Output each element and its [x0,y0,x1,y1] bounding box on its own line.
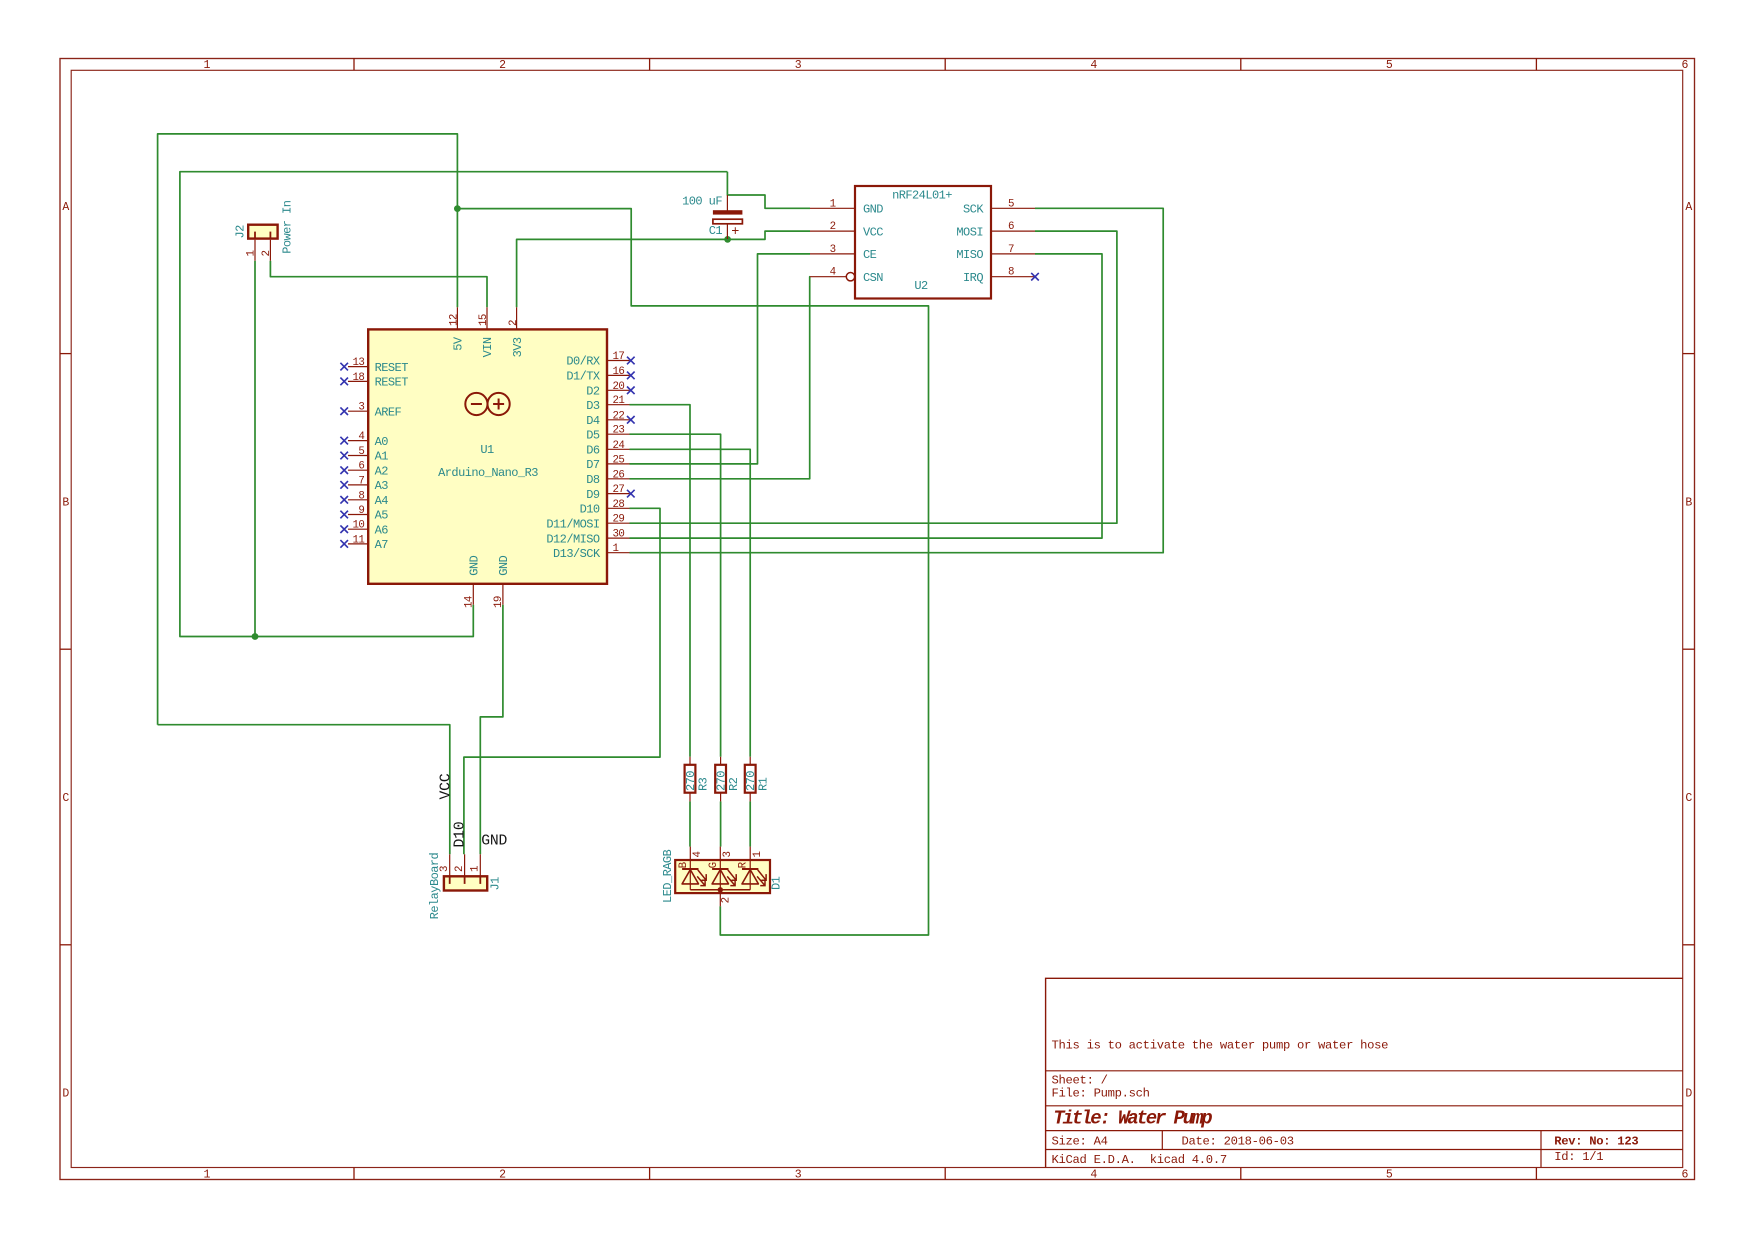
wire 5V to relay VCC [158,725,450,855]
svg-text:R2: R2 [727,777,741,791]
title block row lines [1046,1070,1683,1072]
wire D7 to CE [630,254,811,464]
U2 pin 4 CSN [810,267,883,285]
U1 pin 8 A4 [340,490,388,508]
title block column lines [1161,1131,1163,1150]
svg-text:D13/SCK: D13/SCK [553,547,601,561]
U1 pin 15 VIN [478,307,495,357]
svg-text:C: C [1685,792,1692,805]
svg-text:28: 28 [613,499,625,511]
svg-text:VIN: VIN [481,337,495,357]
wire D13 SCK [630,208,1164,552]
U1 pin 6 A2 [340,461,388,479]
svg-text:3: 3 [722,852,734,858]
wire GND cap to nRF GND [727,172,810,209]
svg-text:A4: A4 [375,494,389,508]
svg-text:G: G [708,862,720,868]
wire 5V loop top [158,134,458,725]
svg-text:D1/TX: D1/TX [566,370,600,384]
svg-text:Size: A4: Size: A4 [1052,1134,1108,1148]
svg-text:SCK: SCK [963,203,984,217]
U1 pin 29 D11/MOSI [546,514,629,532]
svg-text:16: 16 [613,366,625,378]
U1 pin 18 RESET [340,372,408,390]
svg-text:D12/MISO: D12/MISO [546,532,600,546]
frame row ticks right [1683,353,1695,355]
svg-text:D: D [62,1088,69,1101]
svg-text:MOSI: MOSI [956,225,983,239]
svg-text:2: 2 [454,866,466,872]
svg-text:3: 3 [795,1169,802,1182]
U1 pin 30 D12/MISO [546,529,629,547]
svg-text:12: 12 [449,314,461,326]
svg-text:VCC: VCC [439,773,455,799]
svg-text:D7: D7 [586,458,600,472]
svg-text:A3: A3 [375,479,389,493]
wire GND pin19 to relay pin1 [480,605,503,855]
U1 pin 1 D13/SCK [553,543,629,561]
svg-text:24: 24 [613,440,625,452]
svg-text:D10: D10 [580,503,600,517]
svg-text:4: 4 [830,267,836,279]
svg-text:+: + [731,225,739,240]
svg-text:14: 14 [463,596,475,608]
U1 pin 22 D4 [586,410,634,428]
svg-text:3: 3 [830,244,836,256]
connector J1 RelayBoard [428,852,502,919]
svg-text:29: 29 [613,514,625,526]
svg-text:D9: D9 [586,488,600,502]
svg-text:100 uF: 100 uF [682,194,722,208]
wire R2 to LED G [720,801,722,846]
svg-text:5: 5 [1386,1169,1393,1182]
svg-text:D3: D3 [586,399,600,413]
svg-text:3V3: 3V3 [511,337,525,357]
svg-text:D1: D1 [770,876,784,890]
svg-text:J1: J1 [489,877,503,891]
svg-text:3: 3 [795,59,802,72]
U1 pin 14 GND [463,555,481,608]
svg-text:18: 18 [352,372,364,384]
svg-text:19: 19 [493,596,505,608]
svg-text:27: 27 [613,484,625,496]
frame column ticks top [353,58,355,70]
U2 pin 3 CE [810,244,877,262]
svg-text:3: 3 [358,402,364,414]
svg-text:2: 2 [499,59,506,72]
U1 pin 27 D9 [586,484,634,502]
svg-text:VCC: VCC [863,225,883,239]
svg-text:A5: A5 [375,509,389,523]
svg-text:21: 21 [613,395,625,407]
U1 pin 25 D7 [586,454,629,472]
D1 led element B pin 4 [678,847,706,890]
junction 5V [454,205,461,212]
U1 pin 9 A5 [340,505,388,523]
svg-text:9: 9 [358,505,364,517]
svg-text:Id: 1/1: Id: 1/1 [1554,1150,1603,1164]
wire D3 to R3 [630,405,691,757]
wire R3 to LED B [689,801,691,846]
svg-text:1: 1 [204,59,211,72]
svg-text:GND: GND [497,555,511,575]
svg-text:A: A [1685,201,1692,214]
svg-text:R3: R3 [697,777,711,791]
svg-text:U1: U1 [480,443,494,457]
resistor R1 270 [744,757,771,802]
svg-text:Power In: Power In [281,200,295,254]
svg-text:5V: 5V [452,336,466,351]
svg-text:RESET: RESET [375,361,409,375]
svg-text:8: 8 [358,490,364,502]
svg-text:7: 7 [358,475,364,487]
U1 pin 7 A3 [340,475,388,493]
svg-text:5: 5 [1008,198,1014,210]
svg-text:15: 15 [478,314,490,326]
svg-text:22: 22 [613,410,625,422]
U1 pin 3 AREF [340,402,401,420]
svg-text:D8: D8 [586,473,600,487]
wire J2 pin2 to VIN [270,261,487,308]
U1 pin 11 A7 [340,534,388,552]
wire 3V3 rail [517,231,810,307]
svg-text:LED_RAGB: LED_RAGB [661,849,675,903]
connector J2 Power In [233,200,294,260]
svg-text:4: 4 [692,852,704,858]
svg-text:1: 1 [830,198,836,210]
svg-text:CE: CE [863,248,877,262]
svg-text:GND: GND [863,203,883,217]
svg-text:RESET: RESET [375,376,409,390]
svg-text:A: A [62,201,69,214]
U1 pin 21 D3 [586,395,629,413]
D1 led element G pin 3 [708,847,736,890]
svg-text:RelayBoard: RelayBoard [428,852,442,919]
wire D12 MISO [630,254,1103,538]
frame row ticks left [60,353,71,355]
svg-text:GND: GND [468,555,482,575]
svg-text:2: 2 [830,221,836,233]
svg-text:A1: A1 [375,450,389,464]
svg-text:23: 23 [613,425,625,437]
U1 polarity circles [465,393,509,415]
U1 pin 20 D2 [586,381,634,399]
svg-text:25: 25 [613,454,625,466]
svg-text:D5: D5 [586,428,600,442]
svg-text:2: 2 [508,320,520,326]
svg-text:4: 4 [358,431,364,443]
svg-text:A7: A7 [375,538,389,552]
svg-text:4: 4 [1090,59,1097,72]
svg-text:1: 1 [613,543,619,555]
svg-text:20: 20 [613,381,625,393]
U1 pin 2 3V3 [508,307,525,357]
U2 pin 2 VCC [810,221,883,239]
U1 pin 16 D1/TX [566,366,634,384]
svg-text:Title: Water Pump: Title: Water Pump [1053,1108,1212,1130]
wire D6 to R1 [630,449,751,757]
svg-text:File: Pump.sch: File: Pump.sch [1052,1087,1150,1101]
wire GND J2 pin1 [254,261,256,637]
svg-text:D11/MOSI: D11/MOSI [546,517,599,531]
wire GND left rail [180,172,728,637]
U1 pin 12 5V [449,307,466,350]
svg-text:U2: U2 [914,279,928,293]
junction GND rail [252,633,259,640]
wire 5V branch to LED common [457,209,928,935]
svg-text:1: 1 [245,251,257,257]
D1 common rail [690,889,750,891]
svg-text:AREF: AREF [375,405,402,419]
frame column ticks bottom [353,1168,355,1180]
svg-text:D: D [1685,1088,1692,1101]
svg-text:30: 30 [613,529,625,541]
svg-text:D6: D6 [586,444,600,458]
svg-text:17: 17 [613,351,625,363]
D1 pin 2 common [720,890,732,907]
svg-text:C1: C1 [709,224,723,238]
U1 pin 17 D0/RX [566,351,634,369]
svg-text:26: 26 [613,469,625,481]
svg-text:4: 4 [1090,1169,1097,1182]
svg-text:2: 2 [261,251,273,257]
svg-text:A0: A0 [375,435,389,449]
op-amp U1 Arduino_Nano_R3 body [368,329,607,583]
svg-text:6: 6 [1682,1169,1689,1182]
svg-text:B: B [62,497,69,510]
svg-text:MISO: MISO [956,248,983,262]
svg-text:J2: J2 [233,225,247,239]
svg-text:11: 11 [352,534,364,546]
U2 pin 6 MOSI [956,221,1035,239]
svg-text:5: 5 [358,446,364,458]
wire D11 MOSI [630,231,1117,523]
wire D8 to CSN [630,277,811,479]
svg-text:5: 5 [1386,59,1393,72]
svg-text:Date: 2018-06-03: Date: 2018-06-03 [1182,1134,1294,1148]
wire D10 to relay pin2 [464,508,660,854]
U2 nRF24L01+ body [855,186,991,299]
svg-text:nRF24L01+: nRF24L01+ [892,189,952,203]
U2 pin 1 GND [810,198,883,216]
svg-text:8: 8 [1008,267,1014,279]
LED D1 LED_RAGB body [675,860,770,893]
U2 pin 8 IRQ [963,267,1039,285]
svg-text:13: 13 [352,357,364,369]
U1 pin 23 D5 [586,425,629,443]
svg-text:1: 1 [204,1169,211,1182]
svg-text:1: 1 [752,852,764,858]
U2 pin 7 MISO [956,244,1035,262]
svg-text:A6: A6 [375,523,389,537]
svg-text:CSN: CSN [863,271,883,285]
svg-text:R1: R1 [757,777,771,791]
svg-text:6: 6 [1008,221,1014,233]
resistor R3 270 [684,757,711,802]
U1 pin 4 A0 [340,431,388,449]
svg-text:B: B [1685,497,1692,510]
svg-text:KiCad E.D.A. kicad 4.0.7: KiCad E.D.A. kicad 4.0.7 [1052,1153,1227,1167]
svg-text:7: 7 [1008,244,1014,256]
svg-text:D0/RX: D0/RX [566,355,600,369]
svg-text:Sheet: /: Sheet: / [1052,1074,1108,1088]
svg-text:1: 1 [470,866,482,872]
wire R1 to LED R [749,801,751,846]
svg-text:2: 2 [499,1169,506,1182]
D1 led element R pin 1 [738,847,766,890]
svg-text:A2: A2 [375,464,389,478]
svg-text:GND: GND [481,834,507,850]
svg-text:6: 6 [358,461,364,473]
capacitor C1 [682,194,742,240]
svg-text:Arduino_Nano_R3: Arduino_Nano_R3 [438,466,538,480]
svg-text:10: 10 [352,520,364,532]
U1 pin 28 D10 [580,499,630,517]
svg-text:IRQ: IRQ [963,271,983,285]
svg-text:Rev: No: 123: Rev: No: 123 [1554,1134,1638,1148]
svg-text:D4: D4 [586,414,600,428]
svg-text:6: 6 [1682,59,1689,72]
svg-text:D2: D2 [586,385,600,399]
title block outline [1046,978,1683,1167]
U1 pin 24 D6 [586,440,629,458]
U1 pin 26 D8 [586,469,629,487]
U1 pin 10 A6 [340,520,388,538]
U1 pin 5 A1 [340,446,388,464]
U2 pin 5 SCK [963,198,1035,216]
U1 pin 19 GND [493,555,511,608]
junction 3V3 at C1 [724,236,731,243]
U1 pin 13 RESET [340,357,408,375]
svg-text:2: 2 [720,897,732,903]
wire D5 to R2 [630,434,721,757]
svg-text:D10: D10 [452,822,468,848]
resistor R2 270 [715,757,742,802]
svg-text:This is to activate the water: This is to activate the water pump or wa… [1052,1039,1389,1053]
svg-text:C: C [62,792,69,805]
